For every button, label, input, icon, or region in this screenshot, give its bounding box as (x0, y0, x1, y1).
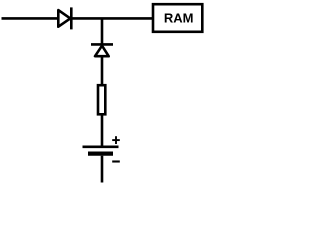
resistor R1 (98, 85, 105, 114)
plus label (112, 136, 120, 144)
wire resistor to battery (101, 114, 104, 147)
wire junction vertical (101, 18, 104, 44)
minus label (112, 160, 120, 162)
wire left horizontal (2, 17, 59, 20)
diode D1 cathode bar (70, 7, 73, 29)
diode D2 cathode bar (91, 43, 113, 46)
RAM box U1 (153, 4, 202, 32)
diode D2 triangle (95, 46, 109, 57)
diode D1 triangle (58, 10, 70, 27)
battery BT1 positive plate (83, 146, 119, 149)
wire diode to resistor (101, 56, 104, 85)
wire diode to RAM (71, 17, 153, 20)
battery BT1 negative plate (88, 152, 113, 156)
svg-text:RAM: RAM (164, 11, 194, 26)
wire battery down (101, 156, 104, 183)
